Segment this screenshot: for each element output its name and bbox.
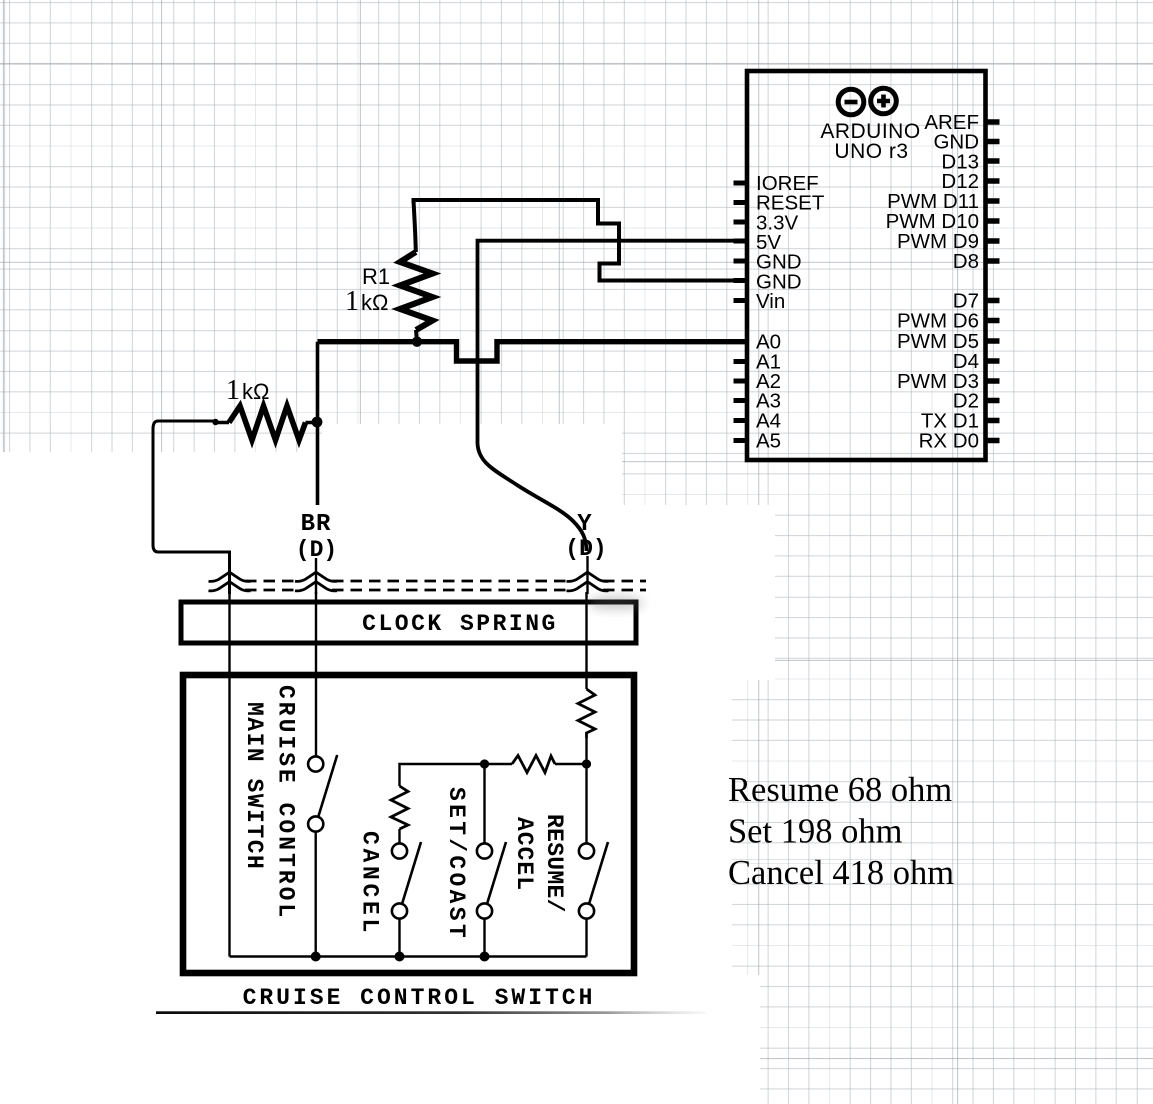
node junction bus / set-coast <box>480 952 490 962</box>
wire main switch to bottom bus <box>315 832 317 958</box>
wire R1-top to GND pin (with jogs) <box>414 200 747 281</box>
wire BR vertical below label <box>315 558 317 594</box>
smudge artifact near clock spring top right <box>588 596 644 610</box>
wire set/coast branch <box>483 764 485 844</box>
cruise control switch box border <box>183 675 634 973</box>
svg-text:PWM D6: PWM D6 <box>897 309 979 332</box>
svg-text:kΩ: kΩ <box>242 379 269 404</box>
svg-text:CRUISE CONTROL: CRUISE CONTROL <box>273 685 299 920</box>
svg-text:A5: A5 <box>756 430 781 453</box>
wire left connector through clock spring into switch box <box>228 592 230 957</box>
clock spring box border <box>181 602 636 643</box>
resistor cancel 418ohm vertical <box>391 786 408 829</box>
wire bus to resume switch bottom <box>585 919 587 957</box>
svg-text:R1: R1 <box>362 264 390 289</box>
Arduino left pin stubs <box>734 183 748 441</box>
switch main terminal circles <box>308 756 323 771</box>
wire 5V pin to curve down to Y connector <box>478 241 747 551</box>
Arduino UNO box U1 <box>747 71 986 460</box>
svg-text:1: 1 <box>345 286 359 317</box>
connector chevrons left <box>209 572 251 581</box>
svg-text:D8: D8 <box>953 250 979 273</box>
node junction 1k resistor / BR wire <box>312 417 323 428</box>
dashed separation lines row 1 <box>245 580 646 583</box>
wire A0 pin to BR node (with notch jog) <box>318 342 747 361</box>
wire bottom bus <box>230 955 587 958</box>
wire Y connector through clock spring to resume resistor <box>585 592 587 689</box>
wire cancel resistor to cancel switch <box>398 829 400 844</box>
wire BR through clock spring to main switch <box>315 592 317 757</box>
node junction R1 bottom / A0 wire <box>412 337 422 347</box>
wire 1k horizontal leads <box>216 421 316 424</box>
svg-text:Resume 68 ohm: Resume 68 ohm <box>728 771 952 809</box>
node junction bus / main switch <box>311 952 321 962</box>
resistor 1k horizontal zigzag <box>229 406 306 440</box>
wire Y stub above connector <box>586 556 588 594</box>
wire R1 top lead <box>414 200 416 252</box>
Arduino logo plus circle <box>871 88 897 114</box>
node junction resume top <box>582 759 591 768</box>
wire set resistor to resume node <box>555 763 587 765</box>
switch resume/accel lever <box>589 842 608 904</box>
switch set/coast terminal circles <box>477 843 492 858</box>
wire cancel branch top corner <box>400 764 513 786</box>
switch cancel lever <box>402 842 421 904</box>
node junction bus / cancel <box>395 952 405 962</box>
svg-text:SET/COAST: SET/COAST <box>443 787 469 941</box>
svg-text:CRUISE CONTROL SWITCH: CRUISE CONTROL SWITCH <box>243 985 596 1011</box>
svg-text:RX D0: RX D0 <box>919 430 979 453</box>
resistor resume 68ohm vertical <box>578 689 595 738</box>
svg-text:CANCEL: CANCEL <box>357 831 383 936</box>
switch resume/accel terminal circles <box>579 843 594 858</box>
resistor set 198ohm horizontal <box>512 756 555 773</box>
svg-text:Y: Y <box>577 511 592 538</box>
switch set/coast lever <box>487 842 506 904</box>
svg-text:1: 1 <box>226 375 240 406</box>
svg-text:kΩ: kΩ <box>361 290 388 315</box>
svg-text:(D): (D) <box>565 536 606 562</box>
svg-text:Vin: Vin <box>756 290 785 313</box>
resistor R1 1k vertical zigzag <box>400 252 433 330</box>
Arduino logo minus circle <box>838 89 864 115</box>
wire resume resistor to resume node <box>585 738 587 764</box>
wire set switch to bus <box>483 919 485 958</box>
svg-text:(D): (D) <box>296 537 337 563</box>
connector chevrons BR <box>295 572 337 581</box>
svg-text:CLOCK SPRING: CLOCK SPRING <box>362 611 558 637</box>
cruise control switch box interior fill <box>183 675 634 973</box>
svg-text:UNO r3: UNO r3 <box>834 140 908 163</box>
clock spring box interior fill <box>181 602 636 643</box>
node junction set/coast top <box>480 759 489 768</box>
connector chevrons Y <box>567 572 609 581</box>
wire resume node to resume switch <box>585 764 587 844</box>
Arduino right pin stubs <box>984 122 1000 441</box>
svg-text:BR: BR <box>301 511 332 538</box>
svg-text:Cancel 418 ohm: Cancel 418 ohm <box>728 854 954 892</box>
node small dot left end of 1k resistor <box>212 419 218 425</box>
wire R1 bottom lead <box>416 330 417 342</box>
wire left loop from 1k resistor to left connector <box>153 421 230 594</box>
switch main lever <box>318 755 337 817</box>
svg-text:MAIN SWITCH: MAIN SWITCH <box>241 702 267 870</box>
switch cancel terminal circles <box>392 843 407 858</box>
svg-text:ACCEL: ACCEL <box>511 817 537 891</box>
wire BR vertical upper <box>316 342 320 505</box>
wire cancel switch to bus <box>398 919 400 958</box>
svg-text:RESUME/: RESUME/ <box>541 814 567 913</box>
dashed separation lines row 2 <box>245 589 646 592</box>
svg-text:Set 198 ohm: Set 198 ohm <box>728 813 903 851</box>
